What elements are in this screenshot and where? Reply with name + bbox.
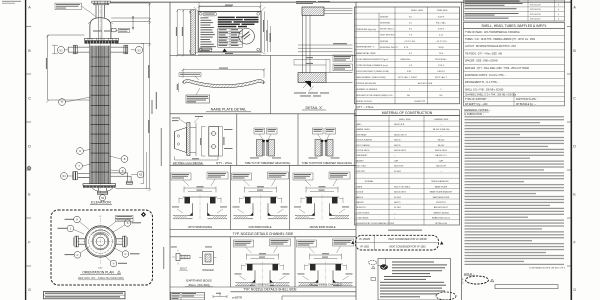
svg-text:BAFFLE: BAFFLE [356, 196, 364, 199]
tubesheet blocks [257, 140, 263, 157]
svg-text:SA 516 GR 70: SA 516 GR 70 [394, 133, 408, 136]
balloon 9 right lower [119, 168, 126, 175]
name plate dense data block [218, 17, 259, 28]
nozzle detail for 80NB channel [232, 172, 289, 220]
revision triangle markers at cloud [440, 241, 443, 244]
lower left nozzle N4 [78, 174, 90, 178]
svg-text:SA 266 CL 2: SA 266 CL 2 [435, 154, 447, 157]
approved stamp mark [380, 264, 388, 269]
lifting lug detail: bracket trapezoid [175, 128, 187, 153]
svg-text:LIFTING LUG: LIFTING LUG [435, 223, 448, 225]
svg-text:SA 105: SA 105 [394, 144, 401, 147]
svg-text:IS 1367: IS 1367 [394, 207, 402, 209]
svg-text:SUPPORT: SUPPORT [436, 202, 446, 204]
svg-text:WASHER: WASHER [202, 268, 213, 272]
socket label box [118, 28, 130, 32]
svg-text:INSPECTION BY: INSPECTION BY [356, 101, 373, 103]
svg-text:ABOVE 80NB NOZZLE: ABOVE 80NB NOZZLE [309, 226, 335, 229]
svg-text:IS 2062: IS 2062 [394, 171, 402, 173]
svg-text:EARTHING BOSS: EARTHING BOSS [433, 196, 450, 199]
balloon N2 [57, 46, 64, 53]
svg-text:SHELL SIDE: SHELL SIDE [399, 119, 411, 121]
bottom left boxed label [200, 48, 212, 52]
label DRAIN on head [93, 31, 102, 32]
equipment title revision cloud [356, 235, 439, 250]
lower labels greeked [294, 92, 306, 95]
svg-text:AS PER CODE: AS PER CODE [418, 82, 433, 85]
nameplate side view dim 740 [183, 70, 264, 78]
design data table [355, 7, 460, 104]
svg-text:CONTINUED NOTES ON SH 2 OF 2: CONTINUED NOTES ON SH 2 OF 2 [529, 267, 566, 269]
lifting lug dims [202, 127, 223, 157]
svg-text:REF. DOC. NO. - 1546-LHG-V2024: REF. DOC. NO. - 1546-LHG-V2024 (RD) [78, 277, 123, 280]
left upper nozzle N2 [68, 47, 89, 52]
left dimension line [48, 35, 90, 100]
svg-text:STD-W-128: STD-W-128 [530, 4, 541, 6]
rotated dim note middle column [156, 92, 157, 109]
svg-text:GASKET: GASKET [356, 159, 365, 162]
right upper nozzle N3 [111, 47, 128, 52]
head weld marks [88, 22, 113, 23]
svg-text:TUBE SIDE: TUBE SIDE [437, 10, 449, 12]
svg-text:MISCELLANEOUS: MISCELLANEOUS [431, 180, 449, 183]
svg-text:WT.EMPTY Kg : ~200: WT.EMPTY Kg : ~200 [465, 104, 488, 106]
approval legend box [378, 259, 451, 300]
svg-text:SA 179: SA 179 [394, 201, 401, 204]
svg-text:SA 106 GR B: SA 106 GR B [394, 191, 407, 194]
name plate left field labels (greeked) [200, 16, 208, 19]
made-in mark triangle [222, 49, 227, 52]
svg-text:SPACER : SIZE : DN8 x SCH40: SPACER : SIZE : DN8 x SCH40 [465, 60, 498, 63]
svg-text:NAME PLATE BRACKET: NAME PLATE BRACKET [430, 191, 453, 194]
svg-text:SA 194 2H: SA 194 2H [436, 165, 446, 168]
svg-text:HEAT CONDENSER FOR VF-1584/B: HEAT CONDENSER FOR VF-1584/B [388, 238, 427, 241]
small cloud symbol left of box [369, 260, 377, 264]
svg-text:NORMAL: NORMAL [365, 180, 374, 183]
countersunk holes note box [186, 95, 210, 103]
head vent socket [112, 29, 117, 32]
svg-text:IMPINGEMENT PL : N.A: IMPINGEMENT PL : N.A TYPE : - [465, 81, 500, 84]
tube to top tubesheet weld detail [250, 128, 281, 158]
svg-text:C: C [76, 253, 78, 257]
svg-text:STD-W-130: STD-W-130 [530, 9, 541, 11]
bottom nozzle flange N6 [97, 191, 107, 193]
svg-text:SA 106 GR B: SA 106 GR B [394, 149, 407, 152]
dished head [90, 18, 111, 40]
svg-text:TUBE TO TOP TUBESHEET WELD DET: TUBE TO TOP TUBESHEET WELD DETAIL [245, 162, 292, 165]
svg-text:MEAN METAL TEMP.: MEAN METAL TEMP. [356, 52, 376, 55]
svg-text:FLUID HANDLED/DENSITY Kg/m³: FLUID HANDLED/DENSITY Kg/m³ [356, 58, 388, 61]
svg-text:TYPE OF HEAD : 10% TORISPHERIC: TYPE OF HEAD : 10% TORISPHERICAL STANDIN… [465, 31, 520, 34]
svg-text:NOZZLE: NOZZLE [356, 192, 365, 194]
plan note box top right [116, 215, 134, 218]
svg-text:ABOVE 80NB & CHANNELS: ABOVE 80NB & CHANNELS [309, 284, 342, 287]
zone divider vline between details and data tables [355, 2, 357, 300]
svg-text:FLOAT VALVE: FLOAT VALVE [356, 217, 370, 220]
svg-text:CHANNL SHELL: CHANNL SHELL [356, 128, 372, 131]
svg-text:3.5/F.V: 3.5/F.V [438, 17, 445, 19]
svg-text:WT.BUNDLE Kg : ~: WT.BUNDLE Kg : ~ [516, 104, 537, 106]
svg-text:LAYOUT : ROTATED TRIANGULAR: LAYOUT : ROTATED TRIANGULAR PITCH : 23.8 [465, 45, 517, 48]
nozzle detail upto 50NB shell [234, 239, 291, 287]
bottom left note box [44, 291, 126, 298]
svg-text:SUPPORT: SUPPORT [356, 171, 366, 173]
svg-text:IS 2062: IS 2062 [394, 197, 402, 199]
plan balloon lower left [74, 252, 81, 259]
svg-text:S: S [127, 221, 129, 225]
balloon N3 [135, 46, 142, 53]
detail X dim lines above lower block [294, 59, 330, 65]
svg-text:2Nos. (SS 304): 2Nos. (SS 304) [188, 283, 209, 287]
earthing boss bolt [176, 254, 180, 261]
bottom small table shell/bonnet [171, 292, 205, 300]
top nozzle neck [96, 5, 104, 18]
plan balloon lifting [67, 225, 74, 232]
svg-text:HOLD :-: HOLD :- [464, 272, 475, 276]
svg-text:DESIGN: DESIGN [380, 17, 388, 19]
orientation plan revision cloud border [51, 210, 153, 285]
svg-text:CORROSION ALLOWANCE (mm): CORROSION ALLOWANCE (mm) [356, 64, 388, 67]
svg-text:SA 193 B7: SA 193 B7 [394, 165, 404, 168]
bottom dim sketch [213, 293, 227, 299]
svg-text:DETAIL 'X': DETAIL 'X' [306, 106, 323, 110]
name plate side view hatched strip [191, 10, 196, 55]
svg-text:TUBESHEET: TUBESHEET [356, 155, 369, 157]
zone divider vline between elevation and details [169, 2, 171, 300]
empty bar box bottom [495, 285, 558, 289]
svg-text:BRASS 8082 (2mm): BRASS 8082 (2mm) [432, 217, 450, 220]
svg-text:BAFFLES : QTY : 4Nos SIZE x D: BAFFLES : QTY : 4Nos SIZE x DIM : TYPE :… [465, 67, 530, 70]
plan left nozzle stub [79, 239, 86, 244]
svg-text:GASKET (BLIND): GASKET (BLIND) [433, 211, 449, 214]
zone tick marks left [26, 27, 31, 267]
svg-text:SHORT (Max.): SHORT (Max.) [380, 29, 394, 31]
svg-text:V: V [76, 218, 78, 222]
svg-text:C: C [124, 252, 126, 256]
svg-text:D: D [28, 145, 31, 149]
svg-text:GENERAL NOTES :-: GENERAL NOTES :- [464, 108, 491, 112]
details row3 grid shell side [170, 237, 356, 292]
bottom channel neck [99, 188, 107, 191]
svg-text:+70 TO 150: +70 TO 150 [436, 41, 448, 43]
svg-text:+70 TO 100: +70 TO 100 [404, 41, 416, 43]
svg-text:PROCESS/--: PROCESS/-- [435, 59, 447, 61]
svg-text:SPOT+ALL T JOINT: SPOT+ALL T JOINT [398, 76, 418, 79]
top nozzle flange N1 [92, 1, 111, 3]
shell head tubes header [464, 22, 565, 28]
svg-text:SHELL, HEAD, TUBES, BAFFLES &: SHELL, HEAD, TUBES, BAFFLES & IMP.PL [481, 24, 546, 28]
weld beads [262, 140, 265, 142]
svg-text:180°: 180° [98, 268, 103, 270]
earthing boss washer [203, 252, 214, 265]
svg-text:TUBES: TUBES [356, 186, 363, 188]
extension vlines to top dim [199, 3, 260, 12]
bundle center pipe [98, 46, 102, 184]
svg-text:JOINT EFFICIENCY (SHELL/DOM): JOINT EFFICIENCY (SHELL/DOM) [356, 71, 389, 73]
girth flange bolt band dark [85, 41, 119, 44]
lifting lug front plate [209, 127, 219, 157]
svg-text:A) FABRICATION :-: A) FABRICATION :- [464, 113, 484, 116]
internal feed pipe [98, 5, 102, 44]
svg-text:PRESSURE Kg/cm²g: PRESSURE Kg/cm²g [356, 28, 377, 31]
baffle lines [91, 57, 110, 172]
svg-text:0.85/1.0: 0.85/1.0 [437, 71, 445, 73]
plan centerlines [76, 218, 125, 265]
svg-text:SHELL SIDE: SHELL SIDE [411, 10, 424, 12]
svg-text:SA 515 M (RA CA): SA 515 M (RA CA) [433, 128, 450, 131]
logo box top left [203, 13, 217, 16]
balloon 6 shell left lower [77, 148, 84, 155]
svg-text:WORKING IN/OUT: WORKING IN/OUT [380, 47, 399, 49]
svg-text:NAME PLATE: NAME PLATE [435, 185, 448, 188]
plan balloon bottom [110, 260, 117, 267]
balloon N4 [61, 173, 68, 180]
svg-text:ELEVATION: ELEVATION [91, 201, 111, 205]
gasket lines mid [298, 45, 353, 52]
bottom girth flange / base [83, 184, 116, 186]
svg-text:INSULATION THICKNESS (MM)/COLD: INSULATION THICKNESS (MM)/COLD [356, 94, 393, 97]
sheet frame top border [111, 1, 571, 3]
svg-text:TEST (HYDRO): TEST (HYDRO) [380, 35, 395, 37]
side view height dim lines [177, 10, 191, 55]
name plate corner rivet holes [199, 12, 202, 15]
orientation plan shell circles [85, 226, 116, 257]
svg-text:FOR 80NB NOZZLE: FOR 80NB NOZZLE [249, 226, 272, 229]
details row1 grid [170, 114, 356, 166]
svg-text:INSULATION BY HYDRO/SALINE OR: INSULATION BY HYDRO/SALINE OR PHP [356, 222, 395, 225]
top-left leader note box [55, 3, 82, 10]
name plate field cells grid [218, 29, 243, 48]
svg-text:LIFTING LUG DETAIL: LIFTING LUG DETAIL [173, 161, 204, 165]
svg-text:SA 105: SA 105 [438, 139, 445, 142]
svg-text:SPOT+ALL T: SPOT+ALL T [435, 76, 448, 79]
plan balloon vent [74, 216, 81, 223]
svg-text:CLIENT/TPI: CLIENT/TPI [414, 101, 426, 103]
tube to bottom tubesheet weld detail [309, 128, 340, 158]
bottom dimension line 110 [198, 54, 261, 56]
corner extension ticks [194, 7, 266, 54]
svg-text:BOLT: BOLT [180, 266, 187, 270]
svg-text:D: D [573, 145, 576, 149]
svg-text:EXPANSION JOINTS : N.A: EXPANSION JOINTS : N.A ILS x THK : - [465, 74, 507, 77]
svg-text:⌀-6ØTR: ⌀-6ØTR [232, 295, 242, 299]
svg-text:RADIOGRAPHY (SHELL/DISH): RADIOGRAPHY (SHELL/DISH) [356, 76, 386, 79]
svg-text:QTY - 2Nos: QTY - 2Nos [216, 161, 233, 165]
svg-text:UPTO 50NB NOZZLE: UPTO 50NB NOZZLE [250, 284, 275, 287]
zone divider vline between data tables and notes column [460, 2, 462, 300]
svg-text:TYP. NOZZLE DETAILS SHELL SIDE: TYP. NOZZLE DETAILS SHELL SIDE [243, 288, 296, 292]
tube bundle [91, 46, 109, 184]
lifting lug pad lines [190, 123, 196, 157]
weld fillet dark blob [305, 81, 312, 88]
svg-text:V: V [113, 262, 115, 266]
top long dim lines from vessel [199, 5, 232, 7]
detail X lower tubesheet section [298, 73, 326, 83]
svg-text:VF-1584/B: VF-1584/B [359, 239, 370, 241]
side view thickness dim [178, 83, 180, 93]
svg-text:NOZZLE FLANGE: NOZZLE FLANGE [356, 139, 373, 142]
svg-text:SHELL: SHELL [356, 124, 363, 126]
svg-text:SPACER: SPACER [356, 201, 365, 204]
details row2 grid channel side nozzles [170, 165, 356, 237]
svg-text:VF-1583: VF-1583 [360, 246, 370, 248]
plan balloon lower right [122, 251, 129, 258]
plan balloon support right [124, 220, 131, 227]
svg-text:NAME PLATE DETAIL: NAME PLATE DETAIL [211, 108, 247, 112]
svg-text:SA 105: SA 105 [394, 139, 401, 142]
svg-text:SA 516 B B: SA 516 B B [394, 123, 405, 126]
svg-text:NOZZLE NECK: NOZZLE NECK [356, 150, 371, 152]
stray corner text top-left [2, 1, 21, 2]
svg-text:ALONG STAYS: ALONG STAYS [356, 211, 370, 214]
material table sub headers [365, 180, 449, 183]
svg-text:PARTITION PLATE : -: PARTITION PLATE : - [516, 98, 539, 101]
svg-text:NO: NO [439, 95, 443, 97]
svg-text:C: C [573, 97, 576, 101]
maker logo seal circle [239, 28, 255, 44]
balloon 8 right [121, 156, 128, 163]
nozzle detail upto 50NB channel [171, 172, 228, 220]
approval text lines [380, 262, 447, 298]
svg-text:CHANNEL SIDE: CHANNEL SIDE [434, 118, 449, 121]
svg-text:DESIGN: DESIGN [380, 41, 388, 43]
svg-text:TIE BOLTS: TIE BOLTS [356, 207, 367, 209]
svg-text:TYP. NOZZLE DETAILS CHANNEL SI: TYP. NOZZLE DETAILS CHANNEL SIDE [233, 232, 294, 236]
svg-text:HEAT CONDENSER FOR VF-1583: HEAT CONDENSER FOR VF-1583 [389, 245, 426, 248]
right dimension lines [264, 11, 270, 52]
svg-text:CHA/CH4/--: CHA/CH4/-- [400, 58, 411, 61]
svg-text:SHELL O.D x THK : 200 NB x SCH: SHELL O.D x THK : 200 NB x SCH30 [465, 89, 504, 91]
svg-text:G: G [28, 288, 31, 292]
divider vline nameplate / detail X [270, 55, 272, 113]
detail X upper label lines [296, 0, 316, 3]
curved name plate side view [184, 80, 264, 88]
svg-text:SA 105: SA 105 [438, 144, 445, 147]
nozzle detail above 80NB channel [293, 172, 350, 220]
material table [355, 116, 460, 225]
zone letters left [28, 6, 31, 293]
lifting lug leader labels [172, 117, 180, 120]
svg-text:BODY FLANGE: BODY FLANGE [356, 144, 371, 147]
svg-text:FULL VAC.: FULL VAC. [436, 22, 447, 25]
balloon 7 [76, 163, 83, 170]
right dimension column [111, 3, 150, 189]
svg-text:3.5/F.V: 3.5/F.V [438, 29, 445, 31]
balloon 5 shell left [59, 99, 66, 106]
balloon N5 [137, 171, 144, 178]
plan right nozzle stub [116, 239, 123, 244]
fold mark symbol on left border [27, 166, 32, 171]
zone letters right [573, 6, 576, 293]
shell head tubes data table [464, 28, 565, 106]
reference standards table [464, 0, 565, 21]
left small dim [52, 45, 58, 54]
svg-text:NO: NO [407, 95, 411, 97]
vessel centerline [99, 1, 101, 198]
svg-text:TUBES : O.D : 19.05 THK : HER: TUBES : O.D : 19.05 THK : HERMO+45MNS QT… [465, 39, 536, 41]
detail X upper flange section [302, 7, 324, 15]
sheet frame left border [25, 0, 27, 300]
svg-text:TIE RODS : QTY : 4 Nos.: TIE RODS : QTY : 4 Nos. SIZE : M8 [465, 53, 503, 55]
tube walls [263, 141, 267, 157]
lower right drain stub N5 [111, 173, 132, 181]
head height dim [132, 16, 134, 30]
mid dim line [141, 43, 144, 183]
hold revision cloud [466, 276, 489, 284]
zone tick marks right [567, 27, 571, 267]
top dimension line 165 [199, 7, 260, 12]
MATERIAL OF CONSTRUCTION banner [355, 110, 460, 116]
svg-text:NUMBER OF PASSES: NUMBER OF PASSES [356, 88, 378, 91]
spacer callout boxes [333, 55, 353, 62]
rivet label box [179, 73, 201, 77]
detail X shell wall section lines [302, 15, 310, 72]
general notes greeked text block [464, 116, 566, 266]
svg-text:WORKING: WORKING [380, 23, 391, 25]
shell walls [90, 44, 111, 184]
balloon N6 [99, 195, 105, 201]
svg-text:DISH HEAD: DISH HEAD [356, 133, 367, 136]
girth flange upper ring [85, 38, 119, 40]
svg-text:G: G [573, 288, 576, 292]
svg-text:QTY :- 3 Nos.: QTY :- 3 Nos. [357, 105, 375, 109]
svg-text:TUBE TO BOTTOM TUBESHEET WELD: TUBE TO BOTTOM TUBESHEET WELD DETAIL [302, 162, 353, 165]
svg-text:UPTO 50NB NOZZLE: UPTO 50NB NOZZLE [188, 226, 213, 229]
svg-text:ANCHOR BOLT: ANCHOR BOLT [434, 206, 449, 209]
title block top edge partial [282, 296, 356, 300]
nozzle detail above 80NB shell [297, 239, 354, 287]
svg-text:ORIENTATION PLAN: ORIENTATION PLAN [82, 271, 114, 275]
svg-text:50/50: 50/50 [438, 47, 444, 49]
name plate outline [198, 11, 261, 52]
divider hline under nameplate dim area [170, 54, 356, 56]
svg-text:STD-W-147: STD-W-147 [530, 19, 541, 21]
svg-text:0°: 0° [99, 216, 101, 218]
approval box corner cell [378, 259, 385, 266]
svg-text:MATERIAL OF CONSTRUCTION: MATERIAL OF CONSTRUCTION [382, 111, 433, 115]
svg-text:SA 179 OR SMLS: SA 179 OR SMLS [394, 185, 411, 188]
svg-text:CHANNEL SHELL O.D x THK : 200: CHANNEL SHELL O.D x THK : 200 NB x SCH30… [465, 94, 517, 97]
svg-text:STRESS RELIEVING: STRESS RELIEVING [356, 83, 376, 85]
svg-text:C: C [28, 97, 31, 101]
hold cloud bottom right of approval [436, 292, 456, 300]
svg-text:SA 106 GR B: SA 106 GR B [435, 149, 448, 152]
svg-text:BOLT / NUT: BOLT / NUT [356, 166, 368, 168]
north diamond marker [141, 212, 146, 217]
sheet frame right border [570, 0, 572, 300]
svg-text:TEMPERATURE °C: TEMPERATURE °C [356, 46, 375, 49]
svg-text:TYPE OF SUPPORT : -: TYPE OF SUPPORT : - [465, 99, 489, 101]
svg-text:STD-W-136: STD-W-136 [530, 14, 541, 16]
svg-text:1.5/1.0: 1.5/1.0 [438, 65, 445, 67]
lifting lug plate side (hatched) [187, 123, 190, 156]
